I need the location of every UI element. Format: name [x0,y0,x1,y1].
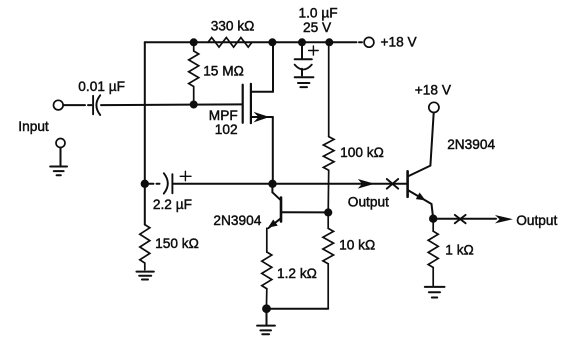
node junction source-output [268,180,276,188]
svg-text:Output: Output [516,213,557,228]
resistor 1.2 kOhm [262,228,272,304]
terminal +18V right circle [429,102,439,112]
svg-text:Output: Output [348,195,389,210]
capacitor 2.2 uF [149,171,269,193]
ground below 1.2k [257,326,275,335]
ground below 1.0 uF [295,77,314,87]
svg-text:2N3904: 2N3904 [213,213,261,228]
arrow output 1 [358,179,375,189]
svg-text:Input: Input [18,119,49,134]
node junction rail-15M [190,38,198,46]
capacitor 1.0 uF electrolytic [295,42,319,75]
svg-text:+18 V: +18 V [415,82,452,97]
svg-text:330 kΩ: 330 kΩ [211,18,255,33]
transistor Q1 2N3904 left [268,184,328,228]
svg-text:100 kΩ: 100 kΩ [340,145,384,160]
wire gate junction to JFET gate [194,103,242,105]
resistor 150 kOhm [140,225,150,270]
node junction 1.2k-ground [262,304,271,313]
arrow output 2 [495,215,513,223]
wire JFET source down [272,117,274,184]
svg-text:1.2 kΩ: 1.2 kΩ [277,266,317,281]
node junction emitter-output2 [429,215,437,223]
terminal Input circle [54,100,64,110]
node junction rail-drain [268,38,276,46]
svg-text:+18 V: +18 V [381,34,418,49]
svg-text:150 kΩ: 150 kΩ [155,236,199,251]
capacitor 0.01 uF [92,96,94,115]
resistor 100 kOhm [323,42,334,213]
wire JFET drain to rail [272,42,274,92]
wire top supply rail [145,41,357,43]
ground below 150k [137,272,154,280]
ground input [50,167,67,176]
svg-text:1 kΩ: 1 kΩ [445,242,474,257]
svg-text:10 kΩ: 10 kΩ [339,238,375,253]
node junction rail-cap1uF [298,38,306,46]
wire left vertical feedback line [144,42,146,224]
svg-text:15 MΩ: 15 MΩ [203,63,244,78]
wire to input ground [60,148,62,166]
resistor 10 kOhm [323,217,334,309]
transistor U1 JFET MPF102 [243,84,273,123]
svg-text:102: 102 [215,122,238,137]
X mark output 1 [387,179,398,189]
wire input to capacitor [63,104,85,106]
svg-text:0.01 µF: 0.01 µF [78,79,125,94]
wire output line 1 [273,183,408,185]
terminal +18V top circle [364,37,374,47]
node junction 2.2uF left [141,180,149,188]
svg-text:25 V: 25 V [303,20,332,35]
wire capacitor to gate junction [101,104,190,107]
terminal input ground circle [56,139,65,148]
node junction rail-100k [325,38,333,46]
wire output line 2 [433,218,496,220]
svg-text:2N3904: 2N3904 [447,137,495,152]
wire dash before +18V terminal [359,41,362,43]
wire to ground 1.2k [266,313,268,324]
resistor 15 MOhm [189,46,199,104]
X mark output 2 [455,215,466,223]
resistor 330 kOhm [208,38,252,48]
node junction gate-15M [190,101,198,109]
svg-text:2.2 µF: 2.2 µF [153,197,192,212]
resistor 1 kOhm [428,223,438,286]
node junction base-100k-10k [324,208,332,216]
wire bottom connecting 10k to 1.2k [267,308,329,310]
transistor Q2 2N3904 right [408,113,434,219]
ground below 1k [425,287,445,298]
svg-text:1.0 µF: 1.0 µF [299,5,338,20]
